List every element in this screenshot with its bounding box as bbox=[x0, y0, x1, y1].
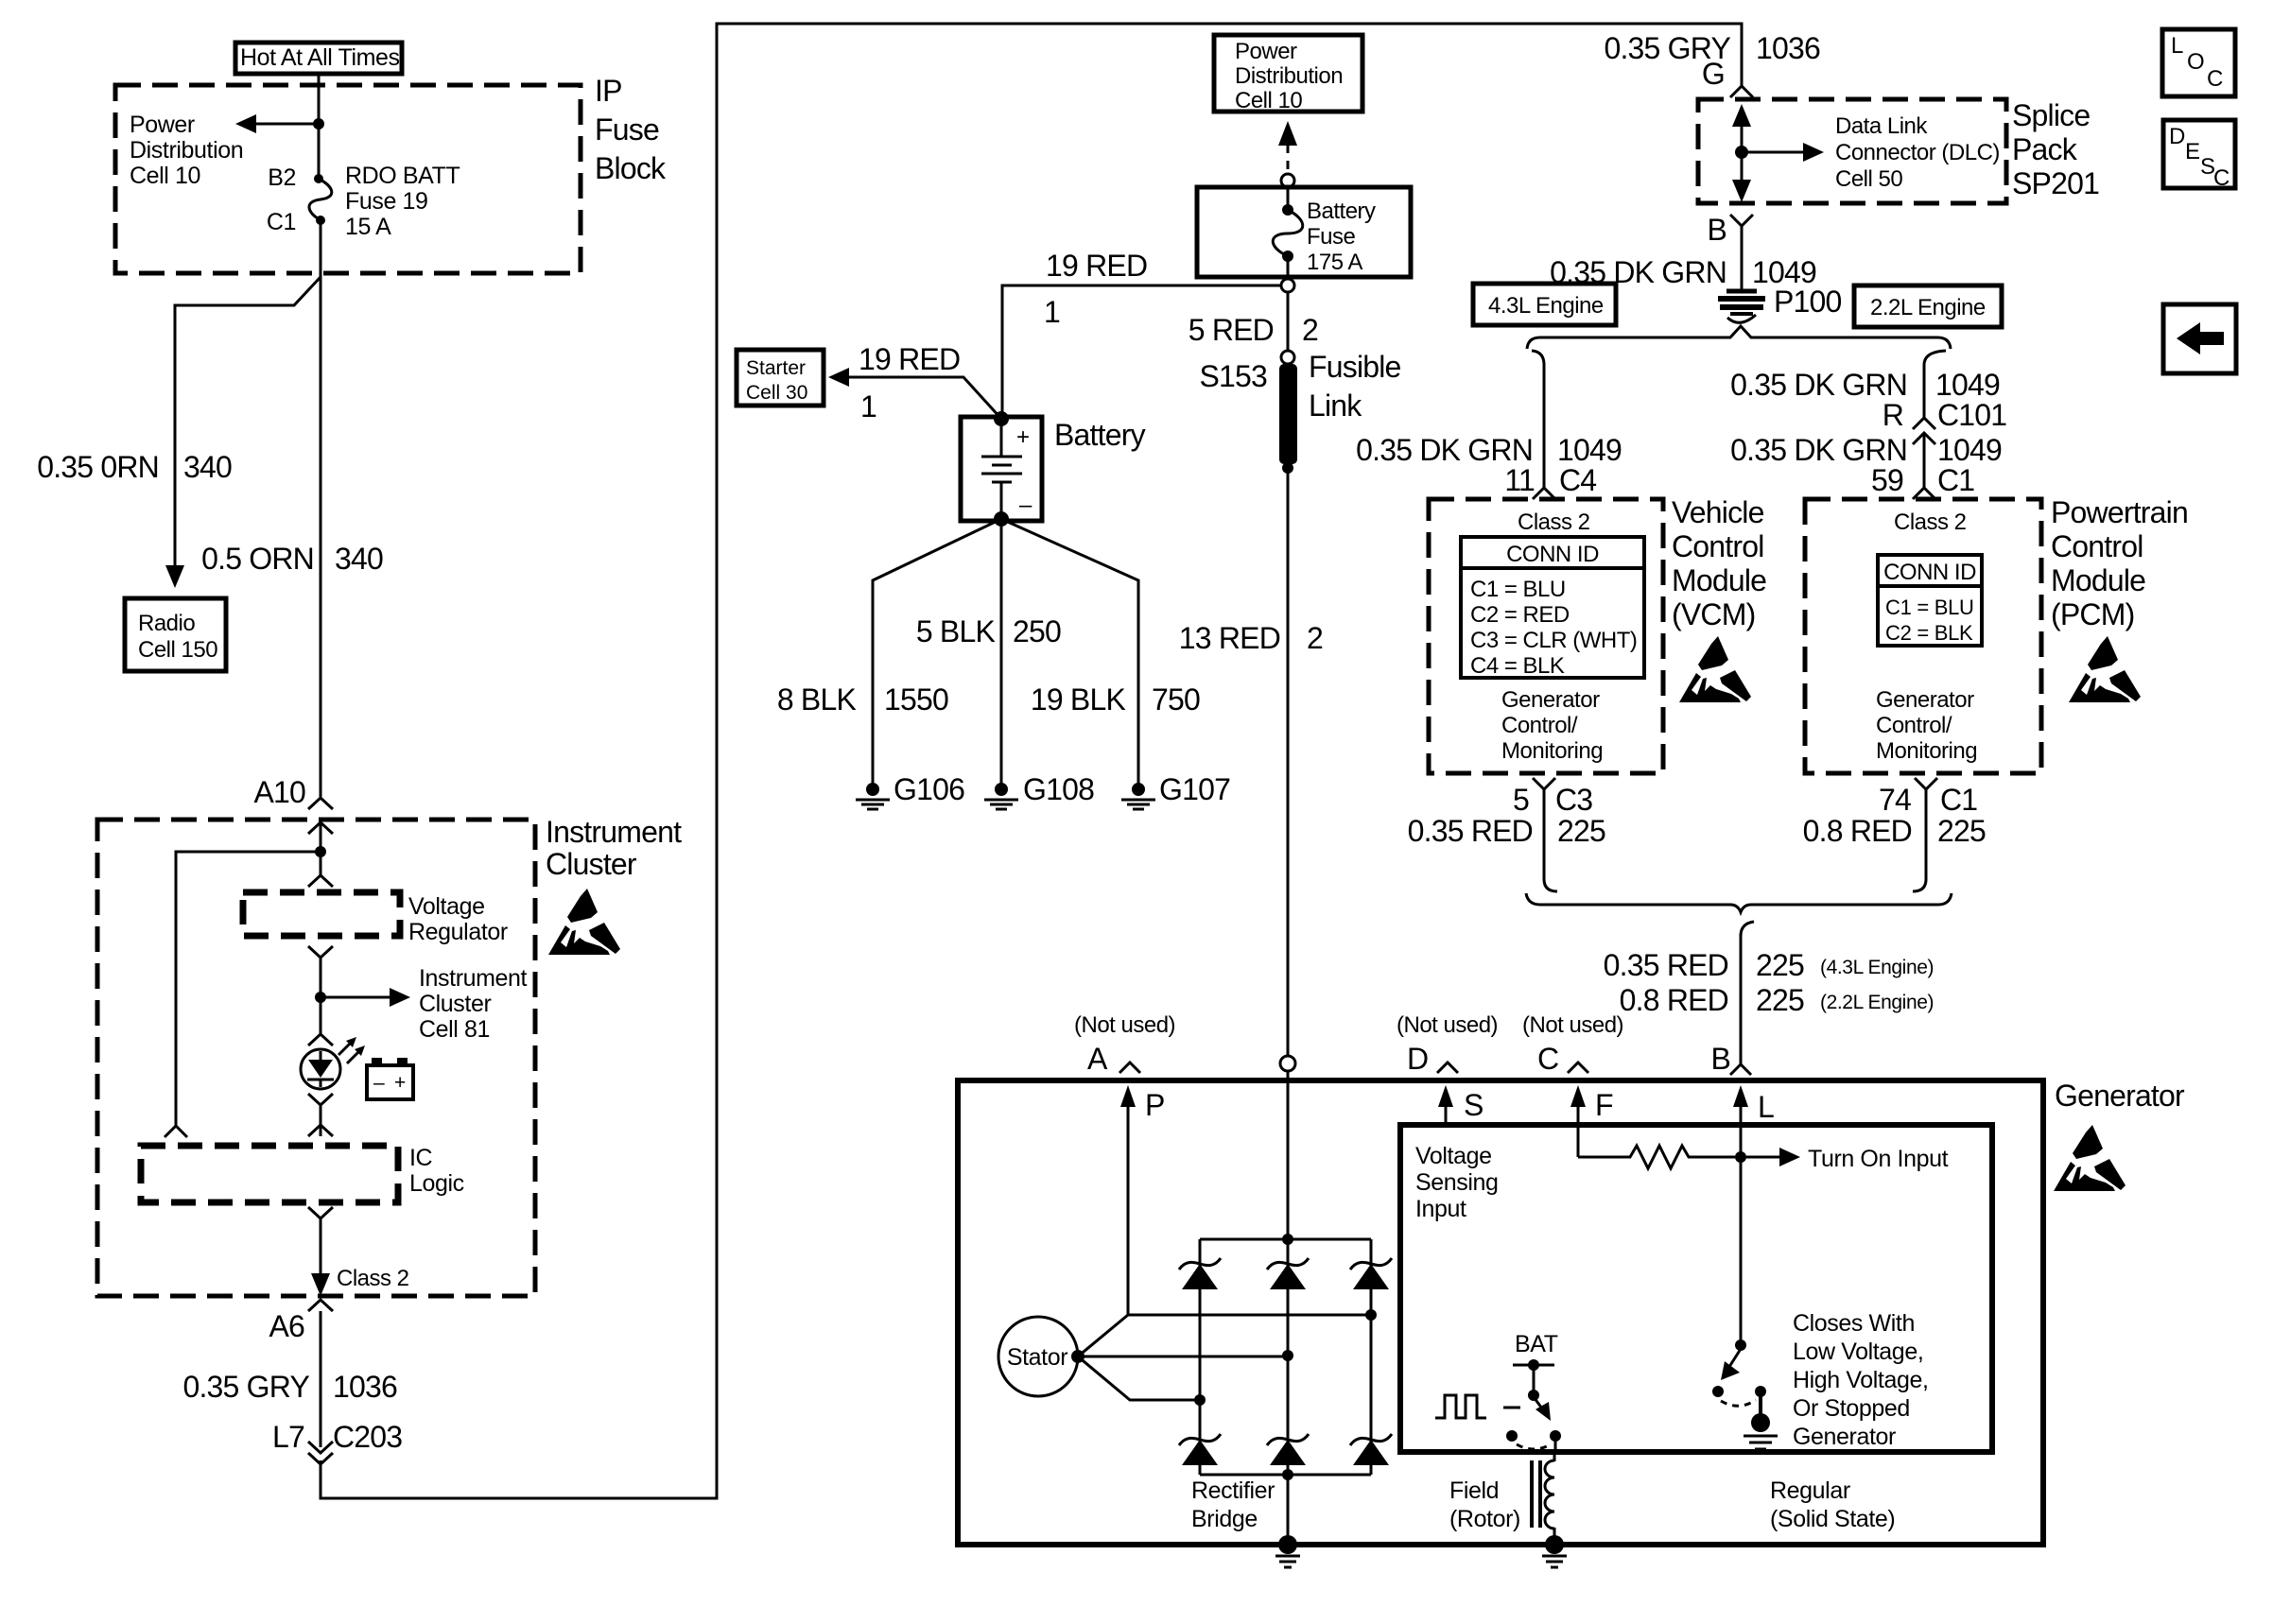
svg-text:11: 11 bbox=[1504, 463, 1535, 497]
svg-text:–: – bbox=[1019, 492, 1032, 518]
svg-text:Bridge: Bridge bbox=[1191, 1506, 1258, 1532]
svg-text:Field: Field bbox=[1449, 1477, 1499, 1504]
svg-text:C3: C3 bbox=[1555, 783, 1592, 817]
svg-text:1550: 1550 bbox=[884, 682, 948, 717]
svg-text:L: L bbox=[1758, 1090, 1774, 1124]
label: 0.35 GRY 1036 (left) bbox=[182, 1370, 397, 1404]
svg-text:D: D bbox=[2169, 124, 2185, 149]
svg-text:0.35 GRY: 0.35 GRY bbox=[182, 1370, 309, 1404]
wire: battery negative fan-out bbox=[873, 519, 1138, 785]
svg-text:15 A: 15 A bbox=[345, 214, 391, 240]
svg-text:(VCM): (VCM) bbox=[1672, 597, 1755, 631]
ESD symbol (VCM) bbox=[1679, 636, 1751, 702]
pin 5 / connector C3 bbox=[1513, 783, 1592, 817]
label: P100 bbox=[1774, 285, 1842, 319]
voltage regulator dashed box bbox=[243, 892, 400, 936]
splice SP201 internal arrows bbox=[1732, 104, 1824, 202]
wire: splice takeoff to radio feed bbox=[175, 277, 321, 571]
label: Regular (Solid State) bbox=[1770, 1477, 1895, 1532]
connector chevron into IC logic main bbox=[308, 1125, 333, 1136]
svg-text:Radio: Radio bbox=[138, 611, 195, 636]
svg-text:Or Stopped: Or Stopped bbox=[1793, 1395, 1910, 1422]
wire: stator phase 1 to bridge bbox=[1078, 1315, 1371, 1356]
node: junction to power distribution bbox=[313, 118, 324, 130]
connector chevron C bbox=[1568, 1063, 1588, 1073]
svg-text:Cluster: Cluster bbox=[546, 847, 637, 881]
svg-text:Cell 50: Cell 50 bbox=[1835, 166, 1902, 192]
svg-text:D: D bbox=[1407, 1042, 1428, 1076]
connector chevron below voltage regulator bbox=[308, 946, 333, 958]
svg-text:250: 250 bbox=[1013, 614, 1061, 648]
svg-text:2: 2 bbox=[1307, 621, 1323, 655]
node: connector ring above fusible link bbox=[1281, 351, 1294, 364]
connector C101 double chevron bbox=[1913, 418, 1935, 444]
svg-text:R: R bbox=[1883, 398, 1903, 432]
terminal F arrow bbox=[1570, 1085, 1613, 1157]
svg-text:Generator: Generator bbox=[1793, 1424, 1896, 1450]
svg-text:G108: G108 bbox=[1023, 772, 1094, 806]
label: Battery bbox=[1054, 418, 1146, 452]
ground (field rotor) bbox=[1542, 1535, 1567, 1567]
svg-text:F: F bbox=[1595, 1088, 1613, 1122]
label: 19 RED 1 (starter) bbox=[859, 342, 960, 423]
wire: arrow to instrument cluster cell 81 bbox=[321, 988, 410, 1007]
wire: regulator to indicator bbox=[320, 958, 322, 1034]
svg-text:E: E bbox=[2185, 139, 2200, 164]
svg-text:59: 59 bbox=[1871, 463, 1903, 497]
wire: stator phase 2 to bridge bbox=[1078, 1356, 1288, 1358]
back arrow reference box bbox=[2163, 304, 2236, 373]
label: Data Link Connector (DLC) Cell 50 bbox=[1835, 113, 2000, 192]
svg-text:S: S bbox=[1464, 1088, 1484, 1122]
svg-text:Fuse: Fuse bbox=[1307, 224, 1356, 250]
svg-text:Connector (DLC): Connector (DLC) bbox=[1835, 140, 2000, 165]
svg-text:Voltage: Voltage bbox=[1415, 1143, 1492, 1169]
label: Class 2 bbox=[337, 1266, 409, 1291]
pin B bbox=[1707, 213, 1726, 247]
svg-text:C2 = RED: C2 = RED bbox=[1470, 602, 1570, 628]
label: 5 RED 2 bbox=[1189, 313, 1318, 347]
label: IC Logic bbox=[409, 1145, 464, 1197]
svg-text:CONN ID: CONN ID bbox=[1506, 542, 1599, 567]
svg-text:1049: 1049 bbox=[1937, 433, 2002, 467]
label: Powertrain Control Module (PCM) bbox=[2051, 495, 2188, 631]
Radio Cell 150 box bbox=[125, 598, 226, 671]
svg-text:Generator: Generator bbox=[1501, 687, 1600, 713]
label: RDO BATT Fuse 19 15 A bbox=[345, 163, 460, 240]
ESD symbol (generator) bbox=[2054, 1125, 2126, 1191]
label: (Not used) D bbox=[1397, 1012, 1498, 1076]
svg-text:0.35 DK GRN: 0.35 DK GRN bbox=[1356, 433, 1533, 467]
svg-text:Block: Block bbox=[595, 151, 667, 185]
switch: closes with low/high voltage bbox=[1712, 1339, 1778, 1449]
svg-text:1049: 1049 bbox=[1557, 433, 1622, 467]
svg-text:340: 340 bbox=[183, 450, 232, 484]
svg-text:Rectifier: Rectifier bbox=[1191, 1477, 1275, 1504]
IC Logic dashed box bbox=[141, 1146, 398, 1202]
svg-text:Input: Input bbox=[1415, 1196, 1466, 1222]
svg-text:Control/: Control/ bbox=[1876, 713, 1952, 738]
connector chevron into IC logic bbox=[165, 1126, 187, 1137]
svg-text:0.35 DK GRN: 0.35 DK GRN bbox=[1730, 433, 1907, 467]
connector chevron inside cluster bbox=[308, 822, 333, 834]
node: L junction at resistor bbox=[1735, 1151, 1746, 1163]
diode D1 (top left) bbox=[1179, 1258, 1221, 1289]
svg-text:RDO BATT: RDO BATT bbox=[345, 163, 460, 189]
svg-text:S153: S153 bbox=[1199, 359, 1267, 393]
terminal L arrow bbox=[1733, 1085, 1774, 1157]
label: 0.35 DK GRN 1049 (to P100) bbox=[1550, 255, 1816, 289]
battery charge icon bbox=[367, 1058, 413, 1099]
svg-text:Data Link: Data Link bbox=[1835, 113, 1928, 139]
label: Voltage Regulator bbox=[408, 893, 508, 945]
connector chevron D bbox=[1437, 1063, 1458, 1073]
svg-text:Battery: Battery bbox=[1054, 418, 1146, 452]
terminal S arrow bbox=[1438, 1085, 1484, 1125]
ground (rectifier bridge) bbox=[1275, 1535, 1300, 1567]
battery bbox=[961, 411, 1042, 527]
wire: arrow up to power distribution bbox=[1278, 121, 1297, 173]
label: (Not used) C bbox=[1522, 1012, 1623, 1076]
wire: 5 RED to fusible link bbox=[1287, 292, 1290, 351]
wire: arrow into Radio cell 150 bbox=[165, 565, 184, 588]
wire: fuse output down to instrument cluster A10 bbox=[320, 220, 322, 797]
svg-text:Power: Power bbox=[130, 112, 195, 138]
ESD symbol (PCM) bbox=[2069, 636, 2141, 702]
svg-text:Power: Power bbox=[1235, 39, 1297, 64]
svg-text:Cell 10: Cell 10 bbox=[1235, 88, 1302, 113]
svg-text:Cell 10: Cell 10 bbox=[130, 163, 200, 189]
wire: A6 to C203 bbox=[320, 1311, 322, 1447]
svg-text:C101: C101 bbox=[1937, 398, 2006, 432]
svg-text:CONN ID: CONN ID bbox=[1883, 560, 1976, 585]
svg-text:+: + bbox=[1016, 424, 1030, 450]
svg-text:Control: Control bbox=[2051, 529, 2143, 563]
svg-text:Class 2: Class 2 bbox=[1894, 510, 1967, 535]
label: Generator Control/Monitoring (PCM) bbox=[1876, 687, 1977, 764]
label: 0.8 RED 225 (2.2L Engine) bbox=[1620, 983, 1934, 1017]
svg-text:Cell 30: Cell 30 bbox=[746, 382, 807, 404]
LED indicator lamp bbox=[301, 1037, 365, 1089]
svg-text:IP: IP bbox=[595, 74, 622, 108]
svg-text:Link: Link bbox=[1309, 389, 1362, 423]
svg-text:O: O bbox=[2187, 49, 2204, 75]
svg-text:High Voltage,: High Voltage, bbox=[1793, 1367, 1929, 1393]
Voltage Sensing Input box bbox=[1400, 1125, 1992, 1452]
pulse waveform symbol bbox=[1435, 1395, 1520, 1418]
svg-text:SP201: SP201 bbox=[2012, 166, 2099, 200]
connector chevron below VCM (5 C3) bbox=[1533, 778, 1555, 789]
svg-text:C1: C1 bbox=[267, 209, 296, 235]
svg-text:Hot At All Times: Hot At All Times bbox=[240, 44, 400, 71]
pin A10 bbox=[253, 775, 305, 809]
svg-text:Module: Module bbox=[2051, 563, 2145, 597]
label: Generator bbox=[2055, 1079, 2185, 1113]
label: BAT bbox=[1515, 1331, 1558, 1357]
svg-text:C3 = CLR (WHT): C3 = CLR (WHT) bbox=[1470, 628, 1637, 653]
label: 0.35 RED 225 (4.3L Engine) bbox=[1604, 948, 1934, 982]
svg-text:Generator: Generator bbox=[1876, 687, 1974, 713]
label: Vehicle Control Module (VCM) bbox=[1672, 495, 1766, 631]
svg-text:1: 1 bbox=[1044, 295, 1060, 329]
svg-text:0.8 RED: 0.8 RED bbox=[1620, 983, 1728, 1017]
svg-text:L7: L7 bbox=[272, 1420, 304, 1454]
svg-text:Control/: Control/ bbox=[1501, 713, 1578, 738]
diode D4 (bottom left) bbox=[1179, 1434, 1221, 1465]
label: Instrument Cluster bbox=[546, 815, 682, 881]
label: Rectifier Bridge bbox=[1191, 1477, 1275, 1532]
svg-text:A: A bbox=[1087, 1042, 1108, 1076]
svg-text:P: P bbox=[1145, 1088, 1165, 1122]
wire: splice pack to P100 bbox=[1741, 226, 1744, 289]
svg-text:5: 5 bbox=[1513, 783, 1529, 817]
svg-text:(2.2L Engine): (2.2L Engine) bbox=[1820, 992, 1934, 1013]
svg-text:13 RED: 13 RED bbox=[1179, 621, 1280, 655]
svg-text:Class 2: Class 2 bbox=[1518, 510, 1590, 535]
brace: VCM/PCM merge to generator L bbox=[1526, 893, 1952, 936]
wire: 19 RED to starter bbox=[828, 368, 1001, 419]
label: Closes With Low Voltage, High Voltage, Or Stopped Generator bbox=[1793, 1310, 1929, 1450]
CONN ID table (VCM) bbox=[1461, 537, 1644, 679]
label: IP Fuse Block bbox=[595, 74, 667, 185]
wire: 13 RED to generator bbox=[1287, 468, 1290, 1056]
connector chevron A bbox=[1119, 1063, 1140, 1073]
svg-text:Cluster: Cluster bbox=[419, 991, 491, 1017]
svg-text:0.35 RED: 0.35 RED bbox=[1604, 948, 1728, 982]
Power Distribution Cell 10 box (top middle) bbox=[1214, 35, 1362, 113]
svg-text:340: 340 bbox=[335, 542, 383, 576]
svg-text:1036: 1036 bbox=[1756, 31, 1820, 65]
diode D5 (bottom center) bbox=[1267, 1434, 1309, 1465]
ground G108 bbox=[984, 772, 1094, 809]
svg-text:Battery: Battery bbox=[1307, 199, 1376, 224]
pin 11 / connector C4 bbox=[1504, 463, 1596, 497]
label: S153 bbox=[1199, 359, 1267, 393]
svg-text:C2 = BLK: C2 = BLK bbox=[1885, 621, 1973, 645]
Generator box bbox=[958, 1080, 2043, 1545]
svg-text:–: – bbox=[373, 1072, 385, 1094]
diode D3 (top right) bbox=[1350, 1258, 1392, 1289]
wire: C101 to PCM (59 C1) bbox=[1923, 433, 1926, 488]
connector chevron B (generator) bbox=[1730, 1064, 1751, 1075]
Powertrain Control Module dashed box bbox=[1805, 499, 2041, 773]
svg-text:19 RED: 19 RED bbox=[1046, 249, 1147, 283]
stator bbox=[998, 1317, 1084, 1396]
svg-text:Starter: Starter bbox=[746, 357, 806, 379]
connector chevron G bbox=[1730, 86, 1753, 97]
svg-text:19 RED: 19 RED bbox=[859, 342, 960, 376]
wire: LED to IC logic bbox=[320, 1105, 322, 1136]
node: cluster feed junction bbox=[315, 846, 326, 857]
svg-text:G106: G106 bbox=[894, 772, 964, 806]
svg-text:1: 1 bbox=[860, 389, 876, 423]
Vehicle Control Module dashed box bbox=[1429, 499, 1663, 773]
connector chevron A10 (above cluster) bbox=[308, 798, 333, 809]
svg-text:C: C bbox=[1537, 1042, 1558, 1076]
LOC reference box bbox=[2162, 29, 2235, 96]
pin B (generator) bbox=[1710, 1042, 1730, 1076]
svg-text:Closes With: Closes With bbox=[1793, 1310, 1915, 1337]
node: bridge junctions bbox=[1194, 1234, 1377, 1480]
DESC reference box bbox=[2163, 120, 2235, 191]
pin R / connector C101 bbox=[1883, 398, 2007, 432]
label: Class 2 (PCM) bbox=[1894, 510, 1967, 535]
CONN ID table (PCM) bbox=[1878, 555, 1982, 646]
svg-text:Fuse 19: Fuse 19 bbox=[345, 188, 428, 215]
svg-text:8 BLK: 8 BLK bbox=[777, 682, 857, 717]
label: 5 BLK 250 bbox=[916, 614, 1061, 648]
connector chevron below LED bbox=[308, 1094, 333, 1105]
Hot At All Times flag bbox=[235, 43, 402, 74]
svg-text:0.35 0RN: 0.35 0RN bbox=[37, 450, 159, 484]
wire: A10 feed inside cluster bbox=[320, 822, 322, 875]
label: Field (Rotor) bbox=[1449, 1477, 1520, 1532]
connector chevron above LED bbox=[308, 1034, 333, 1045]
Battery Fuse box bbox=[1197, 187, 1411, 277]
node: cell 81 junction bbox=[315, 992, 326, 1003]
switch: field PWM (BAT) bbox=[1506, 1359, 1561, 1453]
2.2L Engine box bbox=[1854, 285, 2002, 327]
wire: arrow to Turn On Input bbox=[1746, 1146, 1949, 1172]
svg-text:5 RED: 5 RED bbox=[1189, 313, 1274, 347]
wire: PCM output down to merge bbox=[1913, 789, 1926, 891]
svg-text:74: 74 bbox=[1879, 783, 1911, 817]
svg-text:0.5 ORN: 0.5 ORN bbox=[201, 542, 314, 576]
svg-text:225: 225 bbox=[1557, 814, 1605, 848]
svg-text:225: 225 bbox=[1756, 948, 1804, 982]
svg-text:B2: B2 bbox=[268, 164, 296, 191]
svg-text:750: 750 bbox=[1152, 682, 1200, 717]
wire: arrow leaving cluster bbox=[311, 1273, 330, 1296]
svg-text:Logic: Logic bbox=[409, 1170, 464, 1197]
svg-text:Low Voltage,: Low Voltage, bbox=[1793, 1339, 1923, 1365]
connector chevron into voltage regulator bbox=[308, 875, 333, 887]
svg-text:C1: C1 bbox=[1937, 463, 1974, 497]
svg-text:0.35 RED: 0.35 RED bbox=[1408, 814, 1533, 848]
svg-text:Pack: Pack bbox=[2012, 132, 2078, 166]
svg-text:Stator: Stator bbox=[1007, 1344, 1067, 1371]
svg-text:225: 225 bbox=[1756, 983, 1804, 1017]
connector chevron into PCM bbox=[1913, 488, 1935, 499]
label: Battery Fuse 175 A bbox=[1307, 199, 1376, 275]
wire: stator phase 3 to bridge bbox=[1078, 1356, 1200, 1400]
wire: merged L wire to generator bbox=[1740, 934, 1743, 1064]
label: 19 RED 1 (battery feed) bbox=[1044, 249, 1147, 329]
ground G106 bbox=[856, 772, 964, 809]
fusible link S153 bbox=[1279, 364, 1297, 474]
connector chevron B (below splice pack) bbox=[1730, 215, 1753, 226]
svg-text:225: 225 bbox=[1937, 814, 1986, 848]
wire: hot feed into fuse block bbox=[318, 74, 321, 176]
svg-text:C4 = BLK: C4 = BLK bbox=[1470, 653, 1565, 679]
svg-text:Turn On Input: Turn On Input bbox=[1808, 1146, 1949, 1172]
node: ring terminal at generator B bbox=[1280, 1056, 1295, 1071]
ground G107 bbox=[1121, 772, 1230, 809]
pin 59 / connector C1 bbox=[1871, 463, 1974, 497]
label: (Not used) A bbox=[1074, 1012, 1175, 1076]
label: Fusible Link bbox=[1309, 350, 1401, 423]
svg-text:Generator: Generator bbox=[2055, 1079, 2185, 1113]
wire: L wire to voltage switch bbox=[1740, 1157, 1743, 1345]
svg-text:IC: IC bbox=[409, 1145, 433, 1171]
svg-text:P100: P100 bbox=[1774, 285, 1842, 319]
svg-text:Sensing: Sensing bbox=[1415, 1169, 1499, 1196]
connector chevron below PCM (74 C1) bbox=[1915, 778, 1937, 789]
svg-text:L: L bbox=[2171, 33, 2183, 59]
svg-text:Regulator: Regulator bbox=[408, 919, 508, 945]
svg-text:(PCM): (PCM) bbox=[2051, 597, 2134, 631]
rectifier bridge frame bbox=[1200, 1239, 1371, 1475]
label: Generator Control/Monitoring (VCM) bbox=[1501, 687, 1603, 764]
svg-text:C1 = BLU: C1 = BLU bbox=[1885, 596, 1974, 619]
pin 74 / connector C1 bbox=[1879, 783, 1977, 817]
svg-text:C1 = BLU: C1 = BLU bbox=[1470, 577, 1566, 602]
svg-text:(Not used): (Not used) bbox=[1074, 1012, 1175, 1038]
svg-text:Module: Module bbox=[1672, 563, 1766, 597]
brace: P100 splits to VCM / PCM bbox=[1527, 326, 1951, 349]
IP Fuse Block dashed box bbox=[115, 85, 581, 273]
label: Splice Pack SP201 bbox=[2012, 98, 2099, 200]
wire: B input into rectifier bridge bbox=[1287, 1071, 1290, 1545]
field coil (rotor) bbox=[1532, 1452, 1554, 1545]
Starter Cell 30 box bbox=[737, 350, 824, 406]
connector chevron below cluster A6 bbox=[308, 1300, 333, 1311]
svg-text:A6: A6 bbox=[269, 1309, 304, 1343]
node: connector ring above battery fuse bbox=[1281, 174, 1294, 187]
svg-text:G107: G107 bbox=[1159, 772, 1230, 806]
fuse: Battery Fuse 175 A bbox=[1273, 187, 1303, 278]
svg-text:Monitoring: Monitoring bbox=[1876, 738, 1977, 764]
svg-text:(4.3L Engine): (4.3L Engine) bbox=[1820, 957, 1934, 978]
svg-text:Distribution: Distribution bbox=[1235, 63, 1343, 89]
fuse F19 RDO BATT 15A bbox=[309, 174, 332, 225]
svg-text:Cell 150: Cell 150 bbox=[138, 637, 217, 663]
pin L7 / connector C203 bbox=[272, 1420, 402, 1454]
wire: VCM output down to merge bbox=[1544, 789, 1557, 891]
label: Instrument Cluster Cell 81 bbox=[419, 965, 528, 1043]
connector chevron into VCM bbox=[1533, 488, 1555, 499]
terminal P arrow bbox=[1120, 1085, 1165, 1315]
diode D2 (top center) bbox=[1267, 1258, 1309, 1289]
svg-text:Powertrain: Powertrain bbox=[2051, 495, 2188, 529]
4.3L Engine box bbox=[1473, 284, 1616, 325]
label: 8 BLK 1550 bbox=[777, 682, 948, 717]
connector chevron below IC logic bbox=[308, 1207, 333, 1218]
label: 0.35 GRY 1036 (top right) bbox=[1604, 31, 1820, 65]
pin A6 bbox=[269, 1309, 304, 1343]
svg-text:A10: A10 bbox=[253, 775, 305, 809]
svg-text:Splice: Splice bbox=[2012, 98, 2090, 132]
svg-text:Regular: Regular bbox=[1770, 1477, 1850, 1504]
pin G (splice pack) bbox=[1702, 57, 1725, 91]
label: 0.35 DK GRN 1049 (VCM branch) bbox=[1356, 433, 1622, 467]
wire: branch to IC logic bbox=[176, 852, 321, 1126]
svg-text:B: B bbox=[1707, 213, 1726, 247]
svg-text:19 BLK: 19 BLK bbox=[1031, 682, 1126, 717]
wire: arrow to power distribution cell 10 bbox=[235, 114, 319, 133]
svg-text:2: 2 bbox=[1302, 313, 1318, 347]
svg-text:Vehicle: Vehicle bbox=[1672, 495, 1764, 529]
wire: class 2 output of IC logic bbox=[320, 1218, 322, 1278]
label: 19 BLK 750 bbox=[1031, 682, 1200, 717]
wire: 19 RED feed to battery bbox=[1002, 285, 1281, 419]
svg-text:(Rotor): (Rotor) bbox=[1449, 1506, 1520, 1532]
label: 13 RED 2 bbox=[1179, 621, 1323, 655]
Splice Pack SP201 dashed box bbox=[1698, 99, 2006, 203]
node: connector ring below battery fuse bbox=[1281, 279, 1294, 292]
svg-text:5 BLK: 5 BLK bbox=[916, 614, 996, 648]
svg-text:(Solid State): (Solid State) bbox=[1770, 1506, 1895, 1532]
